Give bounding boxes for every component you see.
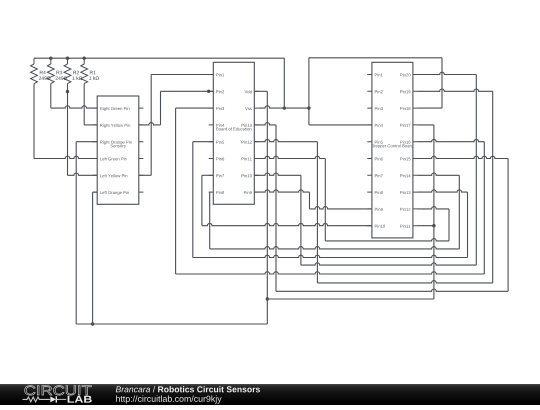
wire Right Yellow right side, hop xyxy=(139,123,161,125)
pin label Left Green Pin xyxy=(100,157,126,160)
wire Pin12 bottom run to stepper Pin19 xyxy=(317,281,492,283)
junction Vss/rail xyxy=(283,106,286,109)
pin label U1 Vss xyxy=(245,107,252,110)
pin stubs U2 Pin10 / Pin11 xyxy=(367,225,417,227)
pin label U1 Pin2 xyxy=(216,90,224,93)
pin label U2 Pin11 xyxy=(400,225,410,228)
CircuitLab logo lettering LAB xyxy=(68,396,92,403)
wire BoE Vdd out xyxy=(254,90,267,92)
IC box U2 'Stepper Control Board' xyxy=(372,62,413,238)
junction Vdd branch xyxy=(266,297,269,300)
junction Left Orange drop xyxy=(91,322,94,325)
wire Pin5 bottom run to stepper Pin13 xyxy=(193,255,468,257)
pin stub U1 Pin9 xyxy=(254,191,259,193)
pin label Right Yellow Pin xyxy=(100,124,130,128)
pin label U1 Pin1 xyxy=(216,73,224,76)
wire Pin12 vertical xyxy=(316,142,318,283)
wire BoE Pin7 xyxy=(202,174,213,176)
logo wire + resistor zigzag xyxy=(23,397,50,402)
pin stub U1 Pin8 xyxy=(209,191,214,193)
wire BoE Pin10 out xyxy=(254,173,301,175)
wire BoE Pin1 xyxy=(151,74,213,76)
pin stub U1 Pin13 xyxy=(254,124,259,126)
wire stepper Pin16 vertical xyxy=(483,142,485,274)
junction Vss node xyxy=(307,106,310,109)
label R2 xyxy=(73,71,79,74)
wire stepper Pin20 vertical xyxy=(475,75,477,266)
wire R4 lead down xyxy=(33,84,35,159)
wire Pin13 bottom run to stepper Pin15 xyxy=(276,289,508,291)
pin label U1 Pin10 xyxy=(242,174,252,177)
wire stepper Pin17 xyxy=(418,124,434,126)
wire BoE Pin13 out xyxy=(254,123,276,125)
pin label U1 Pin12 xyxy=(242,141,252,144)
pin label U1 Pin4 xyxy=(216,124,224,127)
value label 1 kΩ for R2 xyxy=(72,76,82,80)
pin label U1 Vdd xyxy=(245,90,252,93)
pin label U2 Pin17 xyxy=(400,124,410,127)
wire stepper Pin12 row xyxy=(418,207,450,209)
wire R3 to Right Green Pin, hops xyxy=(51,106,97,108)
pin stubs U2 Pin5 / Pin16 xyxy=(367,141,417,143)
resistor R2 1k xyxy=(67,58,69,64)
wire Pin3 bottom run to stepper Pin16 xyxy=(176,272,485,274)
pin label U2 Pin5 xyxy=(375,141,383,144)
junction R2 top xyxy=(66,57,69,60)
pin label U2 Pin15 xyxy=(400,157,410,160)
pin label U2 Pin6 xyxy=(375,157,383,160)
pin stub U1 Pin6 xyxy=(209,158,214,160)
wire Vss to stepper Pin4 xyxy=(309,124,372,126)
pin label U2 Pin1 xyxy=(375,73,383,76)
pin label Left Orange Pin xyxy=(100,191,129,195)
wire Pin9 vertical xyxy=(309,192,311,209)
wire stepper Pin13 vertical xyxy=(467,192,469,257)
footer title text xyxy=(116,386,150,392)
IC box U1 'Board of Education' xyxy=(213,62,254,204)
CircuitLab logo lettering CIRCUIT xyxy=(25,386,92,395)
wire BoE Pin11 out xyxy=(254,156,325,158)
pin label U1 Pin3 xyxy=(216,107,224,110)
wire stepper Pin13 row xyxy=(418,190,468,192)
pin label U2 Pin2 xyxy=(375,90,383,93)
label Board of Education xyxy=(216,127,251,130)
pin stub U1 Pin7 xyxy=(209,174,214,176)
pin label U2 Pin16 xyxy=(400,141,410,144)
wire Pin11 bottom run to stepper Pin12 xyxy=(325,239,449,241)
wire Pin10 vertical xyxy=(300,175,302,265)
pin label U2 Pin19 xyxy=(400,90,410,93)
label R1 xyxy=(90,71,96,74)
pin stubs U3 Right Yellow Pin row xyxy=(93,124,144,126)
pin label Right Green Pin xyxy=(100,107,129,111)
wire to Left Yellow Pin right side xyxy=(139,174,151,176)
pin stub U1 Pin1 xyxy=(209,74,214,76)
wire R2 to Left Yellow Pin, hop xyxy=(68,173,98,175)
wire BoE Pin2 xyxy=(161,90,214,92)
wire Pin11 vertical xyxy=(324,159,326,241)
wire Pin5 vertical xyxy=(192,142,194,258)
label R4 xyxy=(40,71,46,74)
pin label U2 Pin18 xyxy=(400,107,410,110)
wire BoE Vss to node, hop over Vdd drop xyxy=(259,106,309,108)
wire Pin1 vertical xyxy=(150,75,152,176)
pin label U1 Pin6 xyxy=(216,157,224,160)
pin label Left Yellow Pin xyxy=(100,174,127,177)
wire BoE Pin3 xyxy=(176,107,214,109)
wire stepper Pin15 row xyxy=(418,156,509,158)
wire Pin13 vertical xyxy=(275,125,277,291)
wire Vss over stepper board xyxy=(309,57,442,59)
value label 249Ω for R4 xyxy=(39,76,51,80)
wire Vdd bottom run xyxy=(76,323,267,325)
wire to Right Orange Pin xyxy=(76,141,97,143)
pin stubs U3 Left Yellow Pin row xyxy=(93,174,144,176)
label R3 xyxy=(57,71,63,75)
wire Vdd up to Left Orange Pin xyxy=(92,192,94,324)
resistor R3 249ohm xyxy=(50,58,52,64)
pin stubs U3 Left Orange Pin row xyxy=(93,191,144,193)
wire R4 to Left Green Pin, hops xyxy=(34,156,97,158)
pin label U1 Pin8 xyxy=(216,191,224,194)
pin label U2 Pin13 xyxy=(400,191,410,194)
pin label U2 Pin12 xyxy=(400,208,410,211)
value label 1 kΩ for R1 xyxy=(89,76,99,80)
wire top rail Vss net xyxy=(34,57,284,59)
wire stepper Pin11 xyxy=(418,225,434,227)
pin stub U1 Pin3 xyxy=(209,107,214,109)
wire R1 to Right Yellow Pin xyxy=(84,124,97,126)
pin stubs U3 Left Green Pin row xyxy=(93,158,144,160)
pin label U1 Pin9 xyxy=(244,191,252,194)
wire stepper Pin14 row xyxy=(418,173,460,175)
pin label U2 Pin9 xyxy=(375,208,383,211)
junction stepper Pin11 xyxy=(432,224,435,227)
wire rail drop to Vss row xyxy=(283,58,285,108)
wire Pin3 vertical xyxy=(175,108,177,274)
pin stubs U2 Pin8 / Pin13 xyxy=(367,191,417,193)
label Stepper Control Board xyxy=(372,144,413,148)
resistor R4 249ohm xyxy=(33,58,35,64)
wire Vss vertical riser/dropper xyxy=(308,58,310,125)
pin stub U1 Pin5 xyxy=(209,141,214,143)
value label 249Ω for R3 xyxy=(56,76,68,80)
wire Vss drop to stepper Pin18 xyxy=(441,58,443,108)
pin stubs U2 Pin6 / Pin15 xyxy=(367,158,417,160)
wire BoE Pin9 out xyxy=(254,190,309,192)
pin label U2 Pin14 xyxy=(400,174,410,177)
wire stepper Pin20 row xyxy=(418,72,477,74)
wire Pin10 bottom run to stepper Pin20 xyxy=(301,263,476,265)
wire BoE Pin5 xyxy=(193,141,214,143)
wire Pin8 bottom run to stepper Pin14 xyxy=(210,247,460,249)
pin stubs U2 Pin1 / Pin20 xyxy=(367,74,417,76)
pin stubs U2 Pin9 / Pin12 xyxy=(367,208,417,210)
pin label U2 Pin10 xyxy=(375,225,385,228)
pin label U2 Pin4 xyxy=(375,124,383,127)
wire R3 lead down xyxy=(50,84,52,109)
pin stubs U3 Right Green Pin row xyxy=(93,107,144,109)
junction R1 top xyxy=(83,57,86,60)
wire to stepper Pin9 xyxy=(310,207,372,209)
pin stub U1 Pin10 xyxy=(254,174,259,176)
junction on R2 lead xyxy=(66,90,69,93)
label Sensors xyxy=(110,144,125,147)
pin label U1 Pin13 xyxy=(242,124,252,127)
wire stepper Pin12 vertical xyxy=(448,209,450,241)
wire R1 lead down xyxy=(83,84,85,125)
pin label U1 Pin5 xyxy=(216,141,224,144)
pin stub U1 Vdd xyxy=(254,90,259,92)
wire R2 lead down xyxy=(67,84,69,176)
wire stepper Pin19 row xyxy=(418,89,493,91)
wire Vdd main vertical xyxy=(266,91,268,324)
pin label U2 Pin20 xyxy=(400,73,410,76)
sensors box U3 'Sensors' xyxy=(97,96,139,204)
pin label U2 Pin8 xyxy=(375,191,383,194)
pin stubs U2 Pin7 / Pin14 xyxy=(367,174,417,176)
resistor R1 1k xyxy=(83,58,85,64)
pin label U1 Pin7 xyxy=(216,174,224,177)
wire to stepper Pin18 xyxy=(418,107,443,109)
pin stub U1 Pin2 xyxy=(209,90,214,92)
pin label U1 Pin11 xyxy=(242,157,252,160)
wire BoE Pin8 vertical xyxy=(209,192,211,249)
wire to Left Orange Pin xyxy=(93,191,98,193)
pin stub U1 Pin11 xyxy=(254,158,259,160)
wire Pin2 vertical xyxy=(160,91,162,125)
wire Pin7 to stepper Pin10 xyxy=(202,223,372,225)
pin stub U1 Pin4 xyxy=(209,124,214,126)
wire Vdd branch to stepper xyxy=(267,298,434,300)
pin stubs U3 Right Orange Pin row xyxy=(93,141,144,143)
pin label U2 Pin7 xyxy=(375,174,383,177)
logo diode symbol xyxy=(50,396,56,402)
pin stub U1 Vss xyxy=(254,107,259,109)
wire stepper Pin19 vertical xyxy=(492,91,494,283)
pin stubs U2 Pin3 / Pin18 xyxy=(367,107,417,109)
junction at BoE Pin2 xyxy=(207,90,210,93)
wire BoE Pin12 out xyxy=(254,139,317,141)
wire stepper Pin16 row xyxy=(418,139,485,141)
wire stepper Pin17/Pin11 vertical xyxy=(433,125,435,299)
pin label U2 Pin3 xyxy=(375,107,383,110)
wire stepper Pin14 vertical xyxy=(458,175,460,249)
pin stubs U2 Pin2 / Pin19 xyxy=(367,90,417,92)
wire Vdd up to Right Orange Pin xyxy=(75,142,77,324)
junction R3 top xyxy=(49,57,52,60)
pin stubs U2 Pin4 / Pin17 xyxy=(367,124,417,126)
pin stub U1 Pin12 xyxy=(254,141,259,143)
pin label Right Orange Pin xyxy=(100,141,132,145)
wire Pin7 vertical xyxy=(201,175,203,225)
footer url text xyxy=(116,395,222,403)
wire stepper Pin15 vertical xyxy=(507,159,509,292)
